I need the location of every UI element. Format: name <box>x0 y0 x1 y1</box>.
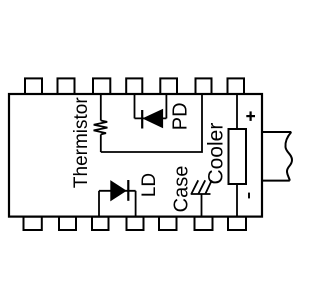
pin 11 bottom <box>127 217 144 230</box>
label - <box>248 193 250 199</box>
pin 12 bottom <box>159 217 177 230</box>
pin 4 top <box>126 78 142 94</box>
pin 7 top <box>228 78 245 94</box>
pin 8 bottom <box>24 217 42 230</box>
pin 1 top <box>25 78 42 94</box>
svg-text:Cooler: Cooler <box>205 123 228 185</box>
chassis ground <box>191 180 212 216</box>
pin 9 bottom <box>59 217 76 230</box>
PD cathode bar <box>141 110 143 129</box>
pin 10 bottom <box>92 217 109 230</box>
pin 3 top <box>93 78 110 94</box>
svg-text:LD: LD <box>139 173 160 197</box>
cooler body <box>229 129 247 184</box>
thermistor RT1 <box>94 94 108 152</box>
wire cooler to pin14 <box>236 184 238 217</box>
wire pin11 stub <box>135 191 137 217</box>
wire pin5 stub <box>165 94 167 118</box>
LD triangle <box>111 181 126 201</box>
wire pin7 to cooler <box>236 94 238 129</box>
label + <box>246 111 255 121</box>
wire diode horizontal <box>99 190 136 192</box>
svg-text:Case: Case <box>170 166 192 213</box>
photodiode PD <box>135 94 167 129</box>
wire pin10 stub <box>98 191 100 217</box>
PD triangle <box>143 110 162 128</box>
pin 14 bottom <box>228 217 246 230</box>
LD cathode bar <box>127 180 129 201</box>
svg-text:Thermistor: Thermistor <box>71 97 92 188</box>
wire thermistor to pin6 <box>101 94 202 152</box>
pin 5 top <box>160 78 177 94</box>
pin 13 bottom <box>195 217 213 230</box>
wire diode horizontal <box>135 117 167 119</box>
laser diode LD <box>99 180 136 217</box>
cooler TEC <box>229 94 247 217</box>
svg-text:PD: PD <box>169 102 191 130</box>
package body <box>9 94 262 217</box>
pin 2 top <box>58 78 75 94</box>
wire pin4 stub <box>134 94 136 118</box>
fiber pigtail <box>261 132 292 181</box>
pin 6 top <box>196 78 212 94</box>
